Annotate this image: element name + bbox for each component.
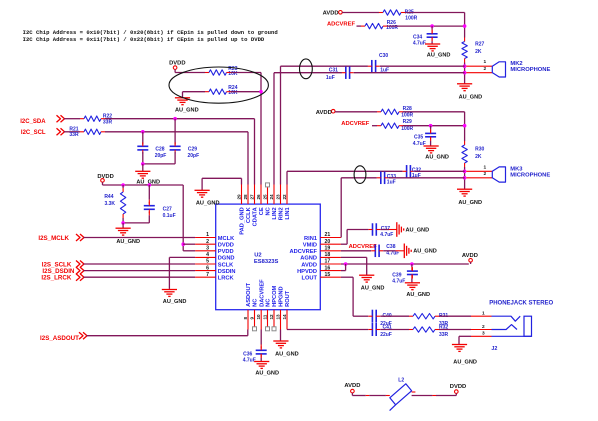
svg-text:PAD_GND: PAD_GND bbox=[240, 207, 246, 234]
wire RIN2 vertical bbox=[280, 66, 282, 184]
pin 29 PAD_GND bbox=[241, 185, 243, 205]
pin 8 ASDOUT bbox=[247, 310, 249, 330]
svg-text:R30: R30 bbox=[475, 147, 484, 153]
annotation ellipse mic3 pair bbox=[354, 166, 366, 184]
capacitor C37 4.7uF bbox=[372, 223, 374, 236]
svg-text:AU_GND: AU_GND bbox=[116, 239, 140, 245]
svg-text:LRCK: LRCK bbox=[218, 276, 235, 282]
pin 19 ADCVREF bbox=[320, 250, 341, 252]
svg-text:AU_GND: AU_GND bbox=[196, 201, 220, 207]
ground AU_GND (C39) bbox=[405, 282, 420, 284]
svg-text:ROUT: ROUT bbox=[285, 290, 291, 307]
svg-text:ASDOUT: ASDOUT bbox=[246, 282, 252, 307]
svg-text:U2: U2 bbox=[254, 253, 261, 259]
resistor R32 33R bbox=[413, 327, 435, 332]
svg-text:I2C Chip Address = 0x10(7bit): I2C Chip Address = 0x10(7bit) / 0x20(8bi… bbox=[23, 29, 278, 36]
power AVDD (R25) bbox=[339, 11, 343, 15]
resistor R26 100R bbox=[365, 23, 383, 28]
svg-text:100R: 100R bbox=[401, 112, 413, 118]
pin 21 RIN1 bbox=[320, 237, 341, 239]
pin 2 DVDD bbox=[195, 243, 216, 245]
wire R26 to bias node bbox=[383, 25, 387, 27]
svg-text:CE: CE bbox=[259, 207, 265, 215]
svg-text:4.7uF: 4.7uF bbox=[392, 279, 405, 285]
power AVDD (pin17) bbox=[469, 259, 473, 263]
junction bias node bbox=[463, 24, 467, 28]
junction C39 bbox=[410, 262, 414, 266]
junction mic1 row bbox=[463, 64, 467, 68]
wire C27 top stub bbox=[148, 185, 150, 200]
svg-text:MCLK: MCLK bbox=[218, 236, 235, 242]
svg-text:CDATA: CDATA bbox=[253, 207, 259, 226]
ground AU_GND (AGND) bbox=[359, 274, 374, 276]
wire CE vertical bbox=[260, 73, 262, 185]
svg-text:HPGND: HPGND bbox=[279, 286, 285, 307]
wire VMID to C37 bbox=[341, 243, 347, 245]
svg-text:18: 18 bbox=[325, 252, 331, 258]
wire SCL to CCLK bbox=[101, 131, 105, 133]
svg-text:15: 15 bbox=[325, 272, 331, 278]
wire AVDD to R25 bbox=[342, 12, 379, 14]
wire LOUT row to C40 bbox=[353, 315, 368, 317]
svg-text:22: 22 bbox=[282, 194, 287, 200]
microphone MK2 bbox=[492, 62, 505, 77]
svg-text:C29: C29 bbox=[188, 146, 197, 152]
svg-text:1: 1 bbox=[482, 311, 485, 317]
svg-text:ES8323S: ES8323S bbox=[254, 259, 279, 265]
wire ADCVREF to R26 bbox=[357, 25, 362, 27]
svg-text:22uF: 22uF bbox=[380, 332, 392, 338]
pin 11 NC bbox=[267, 310, 269, 327]
wire C34 branch bbox=[431, 26, 433, 30]
svg-text:2: 2 bbox=[483, 66, 486, 72]
wire DGND to ground bbox=[169, 256, 195, 258]
resistor R22 33R bbox=[84, 116, 101, 121]
pin 4 DGND bbox=[195, 256, 216, 258]
ground AU_GND (MK3) bbox=[457, 188, 472, 190]
ground AU_GND (PAD_GND) bbox=[195, 189, 210, 191]
ground AU_GND (C37) sideways bbox=[396, 222, 398, 237]
pin 12 HPCOM bbox=[273, 310, 275, 327]
wire HPGND to ground bbox=[280, 330, 282, 342]
wire SDA to R22 bbox=[64, 118, 80, 120]
resistor R24 10K bbox=[209, 89, 227, 94]
svg-text:4.7uF: 4.7uF bbox=[413, 40, 426, 46]
svg-text:AVDD: AVDD bbox=[301, 262, 317, 268]
svg-text:L2: L2 bbox=[398, 377, 404, 383]
svg-text:2: 2 bbox=[483, 171, 486, 177]
svg-text:NC: NC bbox=[266, 207, 272, 215]
svg-text:AU_GND: AU_GND bbox=[406, 227, 430, 233]
pin 24 LIN2 bbox=[273, 185, 275, 205]
svg-text:ADCVREF: ADCVREF bbox=[349, 244, 377, 250]
wire R28 to bias node bbox=[399, 111, 403, 113]
wire SCLK bbox=[84, 263, 196, 265]
wire ASDOUT bbox=[87, 335, 248, 337]
svg-text:C39: C39 bbox=[392, 273, 401, 279]
wire gnd to R24 bbox=[183, 91, 206, 93]
svg-text:AU_GND: AU_GND bbox=[175, 108, 199, 114]
svg-text:R44: R44 bbox=[104, 194, 113, 200]
svg-text:8: 8 bbox=[243, 317, 248, 320]
ground AU_GND (R24) bbox=[182, 92, 184, 98]
pin 26 CE bbox=[260, 185, 262, 205]
svg-text:21: 21 bbox=[325, 232, 331, 238]
wire AGND to ground bbox=[341, 256, 367, 258]
wire R25 to bias node bbox=[401, 12, 405, 14]
pin 22 LIN1 bbox=[286, 185, 288, 205]
ground AU_GND (MK2) bbox=[457, 83, 472, 85]
wire C36 to gnd bbox=[260, 354, 262, 358]
svg-text:DVDD: DVDD bbox=[97, 174, 113, 180]
wire jack pin3 to ground bbox=[471, 335, 492, 337]
junction mic2 row MK3 bbox=[463, 176, 467, 180]
annotation ellipse mic2 pair bbox=[300, 59, 313, 79]
wire ADCVREF pin19 to C38 bbox=[341, 250, 371, 252]
svg-text:MICROPHONE: MICROPHONE bbox=[510, 67, 550, 73]
svg-text:28: 28 bbox=[243, 194, 248, 200]
pin 16 HPVDD bbox=[320, 270, 341, 272]
wire mic3 row2 left bbox=[341, 177, 377, 179]
annotation ellipse around R23 R24 bbox=[169, 67, 268, 103]
svg-text:AVDD: AVDD bbox=[344, 383, 360, 389]
svg-text:R29: R29 bbox=[403, 119, 412, 125]
svg-text:12: 12 bbox=[269, 314, 274, 320]
svg-text:AU_GND: AU_GND bbox=[425, 154, 449, 160]
svg-text:DVDD: DVDD bbox=[450, 384, 466, 390]
wire C35 branch bbox=[430, 126, 432, 130]
no-connect square pin 12 HPCOM bbox=[272, 327, 276, 331]
wire HPVDD to AVDD net bbox=[341, 270, 346, 272]
wire R44 bottom bbox=[122, 214, 124, 218]
wire ADCVREF to R29 bbox=[372, 125, 377, 127]
wire mic row2 left bbox=[274, 72, 342, 74]
no-connect square pin 9 NC bbox=[253, 327, 257, 331]
svg-text:AU_GND: AU_GND bbox=[427, 53, 451, 59]
junction SDA/C29 bbox=[173, 117, 177, 121]
svg-text:ADCVREF: ADCVREF bbox=[327, 21, 355, 27]
wire ROUT corner bbox=[286, 329, 288, 331]
pin 17 AVDD bbox=[320, 263, 341, 265]
pin 23 RIN2 bbox=[280, 185, 282, 205]
svg-text:0.1uF: 0.1uF bbox=[163, 213, 176, 219]
svg-text:1uF: 1uF bbox=[326, 75, 335, 81]
svg-text:9: 9 bbox=[249, 317, 254, 320]
capacitor C34 4.7uF bbox=[427, 33, 438, 35]
svg-text:2: 2 bbox=[482, 324, 485, 330]
junction C35 bbox=[429, 124, 433, 128]
ground AU_GND (C36) bbox=[254, 361, 269, 363]
ground AU_GND (C28 C29) bbox=[142, 164, 144, 171]
junction C34 bbox=[430, 24, 434, 28]
capacitor C31 1uF bbox=[345, 66, 347, 79]
pin 20 VMID bbox=[320, 243, 341, 245]
svg-text:R27: R27 bbox=[475, 42, 484, 48]
wire MCLK bbox=[84, 237, 196, 239]
wire DACVREF to C36 bbox=[260, 330, 262, 345]
wire mic3 row1 left bbox=[287, 170, 403, 172]
wire SCL to R21 bbox=[64, 131, 80, 133]
wire LOUT down bbox=[341, 276, 353, 278]
wire R44 top stub bbox=[122, 185, 124, 188]
svg-text:20pF: 20pF bbox=[155, 153, 167, 159]
ground AU_GND (C35) bbox=[424, 145, 439, 147]
ground AU_GND (HPGND) bbox=[273, 340, 288, 342]
svg-text:PHONEJACK STEREO: PHONEJACK STEREO bbox=[489, 301, 553, 307]
svg-text:14: 14 bbox=[282, 314, 287, 320]
pin 3 PVDD bbox=[195, 250, 216, 252]
wire LIN2 vertical bbox=[273, 73, 275, 185]
svg-text:AU_GND: AU_GND bbox=[255, 371, 279, 377]
svg-text:5: 5 bbox=[206, 259, 209, 265]
ground AU_GND (jack) bbox=[452, 344, 467, 346]
svg-text:13: 13 bbox=[275, 314, 280, 320]
pin 14 ROUT bbox=[286, 310, 288, 330]
svg-text:C35: C35 bbox=[414, 134, 423, 140]
svg-text:R28: R28 bbox=[403, 106, 412, 112]
svg-text:17: 17 bbox=[325, 259, 331, 265]
wire to PVDD pin bbox=[183, 250, 195, 252]
capacitor C38 4.7uF bbox=[374, 245, 376, 257]
svg-text:27: 27 bbox=[249, 194, 254, 200]
wire C37 to side ground bbox=[380, 229, 389, 231]
capacitor C39 4.7uF bbox=[407, 270, 418, 272]
power AVDD (R28) bbox=[331, 109, 335, 113]
svg-text:SCLK: SCLK bbox=[218, 262, 234, 268]
svg-text:33R: 33R bbox=[439, 332, 449, 338]
svg-text:10: 10 bbox=[256, 314, 261, 320]
svg-text:DVDD: DVDD bbox=[169, 61, 185, 67]
wire R24 to CE vertical bbox=[227, 91, 231, 93]
pin 9 NC bbox=[254, 310, 256, 327]
wire C29 down to gnd rail bbox=[174, 152, 176, 164]
wire gnd rail C28-C29 bbox=[143, 163, 175, 165]
svg-text:11: 11 bbox=[262, 314, 267, 319]
wire AVDD net bbox=[341, 263, 469, 265]
wire R23 to CE vertical bbox=[227, 72, 231, 74]
svg-text:I2S_ASDOUT: I2S_ASDOUT bbox=[40, 335, 79, 342]
svg-text:AU_GND: AU_GND bbox=[413, 249, 437, 255]
wire R29 to bias node bbox=[399, 125, 403, 127]
svg-text:DACVREF: DACVREF bbox=[259, 279, 265, 307]
wire DVDD vertical to chip bbox=[182, 185, 184, 251]
svg-text:29: 29 bbox=[236, 194, 241, 200]
wire SDA to CDATA bbox=[101, 118, 105, 120]
wire R27 to mic bbox=[464, 59, 466, 63]
junction R44/C27 bottom bbox=[121, 221, 125, 225]
junction HPVDD/AVDD bbox=[344, 262, 348, 266]
svg-text:24: 24 bbox=[269, 194, 274, 200]
svg-text:I2C_SDA: I2C_SDA bbox=[20, 119, 46, 125]
microphone MK3 bbox=[492, 167, 505, 182]
wire SCL junction down to C28 bbox=[142, 132, 144, 145]
capacitor C28 20pF bbox=[137, 145, 148, 147]
svg-text:NC: NC bbox=[266, 299, 272, 307]
ground AU_GND (C34) bbox=[425, 43, 440, 45]
svg-text:MICROPHONE: MICROPHONE bbox=[510, 173, 550, 179]
svg-text:AU_GND: AU_GND bbox=[459, 94, 483, 100]
wire PAD_GND to ground bbox=[241, 178, 243, 184]
pin 5 SCLK bbox=[195, 263, 216, 265]
svg-text:AGND: AGND bbox=[300, 256, 317, 262]
svg-text:1: 1 bbox=[483, 164, 486, 170]
pin 28 CCLK bbox=[247, 185, 249, 205]
svg-text:16: 16 bbox=[325, 265, 331, 271]
svg-text:AU_GND: AU_GND bbox=[361, 286, 385, 292]
junction R29 bias bbox=[463, 124, 467, 128]
svg-text:C27: C27 bbox=[163, 207, 172, 213]
wire R30 to mic bbox=[464, 163, 466, 167]
svg-text:3: 3 bbox=[206, 246, 209, 252]
junction DVDD/pin2 bbox=[181, 242, 185, 246]
wire AVDD to R28 bbox=[335, 111, 377, 113]
wire mic row2 right bbox=[354, 72, 465, 74]
wire C28 down to gnd rail bbox=[142, 152, 144, 164]
capacitor C40 22uF bbox=[371, 310, 373, 323]
wire C41 to R32 bbox=[380, 329, 409, 331]
junction SCL/C28 bbox=[141, 130, 145, 134]
svg-text:20pF: 20pF bbox=[188, 153, 200, 159]
svg-text:23: 23 bbox=[275, 194, 280, 200]
svg-text:RIN1: RIN1 bbox=[304, 236, 317, 242]
wire C40 to R31 bbox=[380, 315, 409, 317]
wire C39 branch bbox=[411, 264, 413, 267]
svg-text:I2C Chip Address = 0x11(7bit): I2C Chip Address = 0x11(7bit) / 0x22(8bi… bbox=[23, 36, 265, 43]
svg-text:LOUT: LOUT bbox=[302, 276, 318, 282]
svg-text:100R: 100R bbox=[405, 16, 417, 22]
wire mic3 row1 right bbox=[415, 170, 465, 172]
no-connect square top NC pin bbox=[266, 183, 270, 187]
svg-text:C30: C30 bbox=[379, 53, 388, 59]
svg-text:J2: J2 bbox=[491, 346, 497, 352]
wire LRCK bbox=[84, 276, 196, 278]
svg-text:1: 1 bbox=[483, 59, 486, 65]
svg-text:2K: 2K bbox=[475, 49, 482, 55]
capacitor C36 4.7uF bbox=[256, 349, 267, 351]
wire C27 bottom to R44 bottom bbox=[148, 211, 150, 215]
svg-text:AVDD: AVDD bbox=[316, 110, 332, 116]
svg-text:AU_GND: AU_GND bbox=[458, 200, 482, 206]
svg-text:100R: 100R bbox=[401, 126, 413, 132]
wire to DVDD pin bbox=[183, 243, 195, 245]
capacitor C33 1uF bbox=[380, 172, 382, 185]
wire DVDD to R23 bbox=[174, 69, 176, 72]
power DVDD (L2) bbox=[455, 390, 459, 394]
capacitor C29 20pF bbox=[170, 145, 181, 147]
svg-text:VMID: VMID bbox=[303, 243, 317, 249]
ground AU_GND (C38) sideways bbox=[403, 244, 405, 259]
svg-text:DVDD: DVDD bbox=[218, 243, 234, 249]
svg-text:7: 7 bbox=[206, 272, 209, 278]
svg-text:26: 26 bbox=[256, 194, 261, 200]
pin 27 CDATA bbox=[254, 185, 256, 205]
svg-text:1: 1 bbox=[206, 232, 209, 238]
svg-text:4: 4 bbox=[206, 252, 209, 258]
svg-text:I2S_LRCK: I2S_LRCK bbox=[41, 275, 71, 282]
junction mic1 row MK3 bbox=[463, 170, 467, 174]
ground AU_GND (R44 C27) bbox=[122, 223, 124, 228]
resistor R28 100R bbox=[381, 109, 399, 114]
svg-text:PVDD: PVDD bbox=[218, 249, 234, 255]
svg-text:19: 19 bbox=[325, 246, 331, 252]
svg-text:6: 6 bbox=[206, 265, 209, 271]
svg-text:25: 25 bbox=[262, 194, 267, 200]
wire mic row1 right bbox=[380, 65, 465, 67]
resistor R29 100R bbox=[381, 123, 399, 128]
svg-text:LIN2: LIN2 bbox=[272, 207, 278, 219]
svg-text:DSDIN: DSDIN bbox=[218, 269, 236, 275]
svg-text:AVDD: AVDD bbox=[323, 10, 339, 16]
svg-text:I2C_SCL: I2C_SCL bbox=[21, 130, 46, 136]
svg-text:I2S_MCLK: I2S_MCLK bbox=[38, 235, 69, 242]
capacitor C30 1uF bbox=[371, 60, 373, 72]
svg-text:AU_GND: AU_GND bbox=[275, 352, 299, 358]
wire mic row1 left bbox=[281, 65, 368, 67]
wire C38 to side ground bbox=[383, 250, 395, 252]
svg-text:C28: C28 bbox=[155, 146, 164, 152]
svg-text:C31: C31 bbox=[329, 67, 338, 73]
IC U2 ES8323S body bbox=[216, 204, 321, 310]
svg-text:10K: 10K bbox=[228, 90, 238, 96]
svg-text:3: 3 bbox=[482, 331, 485, 337]
wire L2 to DVDD bbox=[412, 391, 416, 393]
capacitor C32 1uF bbox=[406, 165, 408, 178]
svg-text:AU_GND: AU_GND bbox=[453, 360, 477, 366]
capacitor C41 22uF bbox=[371, 323, 373, 336]
no-connect square pin 11 NC bbox=[266, 327, 270, 331]
svg-text:NC: NC bbox=[253, 299, 259, 307]
pin 7 LRCK bbox=[195, 276, 216, 278]
svg-text:20: 20 bbox=[325, 239, 331, 245]
svg-text:ADCVREF: ADCVREF bbox=[341, 121, 369, 127]
svg-text:4.7uF: 4.7uF bbox=[380, 232, 393, 238]
svg-text:4.7uF: 4.7uF bbox=[243, 357, 256, 363]
wire C39 to gnd bbox=[411, 275, 413, 279]
svg-text:HPCOM: HPCOM bbox=[272, 285, 278, 306]
capacitor C35 4.7uF bbox=[425, 132, 436, 134]
resistor R21 33R bbox=[84, 129, 101, 134]
pin 6 DSDIN bbox=[195, 270, 216, 272]
wire DVDD rail bbox=[102, 182, 104, 185]
svg-text:DGND: DGND bbox=[218, 256, 235, 262]
pin 15 LOUT bbox=[320, 276, 341, 278]
resistor R30 2K bbox=[464, 141, 466, 145]
svg-text:AVDD: AVDD bbox=[462, 253, 478, 259]
wire R32 to jack pin2 bbox=[435, 329, 439, 331]
resistor R25 100R bbox=[383, 10, 401, 15]
resistor R31 33R bbox=[413, 314, 435, 319]
svg-text:CCLK: CCLK bbox=[246, 206, 252, 223]
wire RIN1 vertical bbox=[340, 178, 342, 238]
wire C35 to gnd bbox=[430, 137, 432, 141]
svg-text:LIN1: LIN1 bbox=[285, 207, 291, 219]
pin 13 HPGND bbox=[280, 310, 282, 330]
pin 25 NC bbox=[267, 187, 269, 204]
svg-text:3.3K: 3.3K bbox=[104, 201, 115, 207]
svg-text:2: 2 bbox=[206, 239, 209, 245]
pin 1 MCLK bbox=[195, 237, 216, 239]
resistor R44 3.3K bbox=[120, 192, 125, 214]
svg-text:33R: 33R bbox=[69, 132, 79, 138]
svg-text:ADCVREF: ADCVREF bbox=[290, 249, 318, 255]
power DVDD (R23 bias) bbox=[173, 66, 177, 70]
svg-text:1uF: 1uF bbox=[387, 179, 396, 185]
power AVDD (L2) bbox=[351, 389, 355, 393]
junction gnd rail bbox=[141, 162, 145, 166]
resistor R23 10K bbox=[209, 70, 227, 75]
wire C34 to gnd bbox=[431, 37, 433, 41]
junction mic2 row bbox=[463, 71, 467, 75]
